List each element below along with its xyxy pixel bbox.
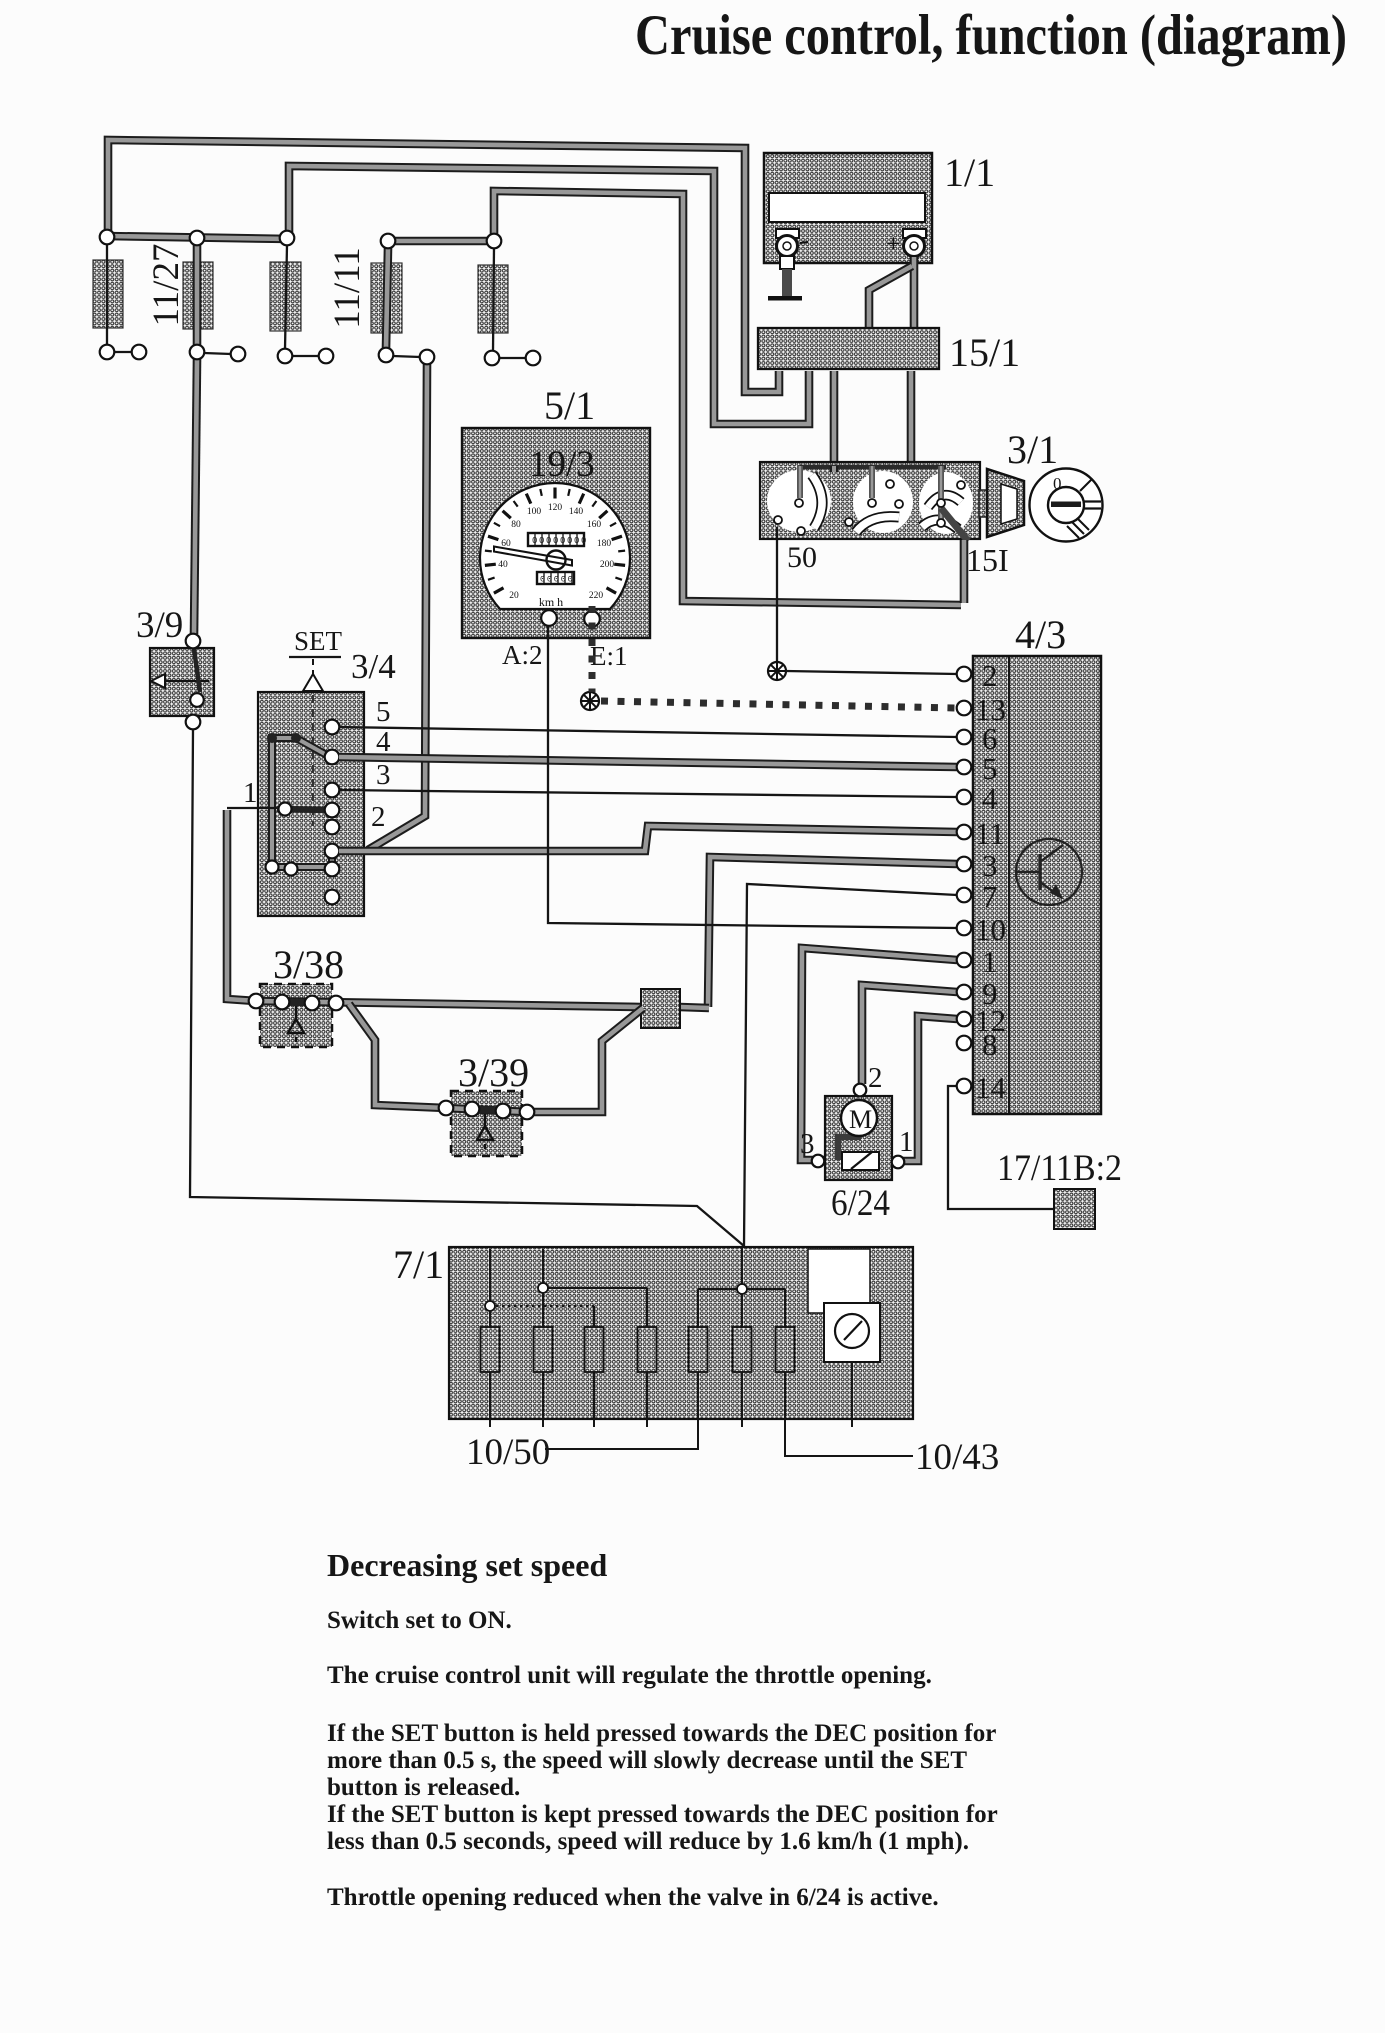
svg-text:more than 0.5 s, the speed wil: more than 0.5 s, the speed will slowly d… [327,1747,967,1774]
svg-text:button is released.: button is released. [327,1774,520,1801]
svg-text:140: 140 [569,507,584,517]
terminal link F4 [393,356,420,357]
node A:2 [541,610,557,626]
odometer lower [537,572,575,585]
svg-text:40: 40 [498,560,508,570]
svg-text:A:2: A:2 [502,640,543,670]
wire 4/3 pin3 to junction box [708,857,957,1007]
svg-text:5/1: 5/1 [544,383,595,428]
wire 3/4 pin2 to 4/3 pin11 [339,826,957,851]
svg-text:2: 2 [371,801,386,833]
cruise control unit 4/3 body [973,656,1101,1114]
wire 3/4 pin1 down to 3/38 row [227,810,256,1001]
3/4 internal bottom bar [272,852,332,867]
svg-text:00000: 00000 [540,575,575,585]
7/1 junction node b [737,1284,747,1294]
wire fuse top row [105,236,290,239]
7/1 element 6 [733,1327,752,1372]
7/1 junction node a [538,1283,548,1293]
svg-text:Throttle opening reduced when: Throttle opening reduced when the valve … [327,1884,939,1911]
wire through fuse F4 (11/11) [386,248,388,348]
6/24 internal lead [838,1137,861,1160]
svg-text:120: 120 [548,503,563,513]
3/4 internal contact path [272,738,332,867]
wire 4/3 pin7 across and down to 7/1 [744,884,957,1246]
node 6/24 pin3 [812,1155,825,1168]
node 3/4 pin c1 [325,803,340,818]
speedometer tick marks [485,488,625,594]
svg-text:10/50: 10/50 [466,1432,550,1473]
7/1 element 4 [638,1327,657,1372]
switch chamber middle [853,471,913,533]
svg-text:8: 8 [982,1027,998,1062]
node 3/38 c [305,996,320,1011]
speedometer needle [494,547,572,566]
node F3 pair [319,349,334,364]
speedometer 5/1 body [462,428,650,638]
connector 3/39 body [451,1091,522,1156]
node 4/3 pin 11 [957,825,972,840]
switch node g [797,527,805,535]
fuse F2 11/27 [183,262,213,329]
switch bezel tab [979,490,988,517]
3/4 dashed axis [312,695,314,826]
wire 4/3 pin12 to 6/24 pin1 [881,1016,957,1161]
switch stub contact 1 [797,466,803,498]
node 3/4 pin c4 [325,890,340,905]
node 4/3 pin 10 [957,921,972,936]
node F5 pair [526,351,541,366]
node 3/9 mid [190,693,204,707]
key cylinder face 3/1 [1030,469,1103,542]
svg-text:The cruise control unit will r: The cruise control unit will regulate th… [327,1662,932,1689]
7/1 white notch [808,1249,870,1313]
switch contact arc middle [856,517,899,532]
7/1 junction node c [485,1301,495,1311]
terminal link F1 [114,351,132,353]
svg-text:160: 160 [587,520,602,530]
wire E:1 dashed down [589,606,596,692]
3/4 junction dot [267,733,277,743]
switch chamber left [767,470,831,532]
svg-text:14: 14 [975,1070,1007,1105]
6/24 valve symbol [842,1152,879,1170]
node 4/3 pin 14 [957,1079,972,1094]
switch node i [937,519,945,527]
svg-text:Cruise control, function (diag: Cruise control, function (diagram) [635,4,1347,67]
7/1 dotted link [490,1305,594,1307]
node 3/9 bottom [186,715,201,730]
svg-text:3/9: 3/9 [136,605,183,646]
switch 3/9 lever [194,649,200,692]
node F1 bottom [100,345,115,360]
svg-text:SET: SET [294,626,343,656]
node 3/38 a [249,994,264,1009]
svg-text:E:1: E:1 [590,641,628,671]
node 3/39 c [496,1104,511,1119]
wire fuse F2 down to switch 3/9 [194,359,197,634]
node 4/3 pin 13 [957,701,972,716]
fuse F5 [478,265,508,333]
node 3/38 b [275,995,290,1010]
node 4/3 pin 3 [957,857,972,872]
svg-text:220: 220 [589,591,604,601]
node F4 bottom [379,348,394,363]
battery 1/1 body [764,153,932,263]
svg-text:3: 3 [800,1128,815,1160]
wire 3/39 mated segment [470,1109,505,1111]
node F5 top [487,234,502,249]
wire through fuse F2 (11/27) [193,245,202,345]
connector 3/39 arrow [477,1114,493,1149]
odometer upper [528,533,588,546]
node 3/9 top [186,634,201,649]
terminal link F2 [204,353,231,354]
node 3/4 bar1 [279,803,292,816]
node F5 bottom [485,351,500,366]
wire feed row 2 [289,166,809,424]
fuse F3 [270,262,301,331]
7/1 clock unit [824,1303,880,1362]
wire 15/1 to ignition switch left [830,371,839,462]
wire 3/4 pin1 link [227,807,277,809]
node F4 top [381,234,396,249]
junction box on pin3 wire [641,989,680,1028]
battery negative terminal [776,229,808,269]
switch contact arc left [812,475,822,528]
svg-text:7: 7 [982,879,998,914]
svg-text:10/43: 10/43 [915,1437,999,1478]
SET dashed stem [312,659,314,676]
svg-text:11/27: 11/27 [146,244,187,327]
4/3 pin strip divider [1008,657,1010,1113]
svg-text:km h: km h [539,595,563,609]
fuse F1 [93,260,123,328]
battery label band [769,193,925,222]
wire 3/4 pin4 to 4/3 pin5 [339,757,957,767]
switch chamber right [919,472,973,534]
svg-text:Decreasing set speed: Decreasing set speed [327,1547,607,1583]
svg-text:100: 100 [527,507,542,517]
switch 3/9 arrow [151,674,209,688]
switch contact arc right low [922,520,958,529]
wire 4/3 pin1 to 6/24 pin3 [801,948,957,1160]
switch stub contact 2 [869,466,875,498]
svg-text:M: M [849,1105,872,1134]
node 4/3 pin 2 [957,667,972,682]
ground symbol [768,296,802,301]
node F2 bottom [190,345,205,360]
svg-text:00000000: 00000000 [532,536,588,546]
terminal link F3 [292,355,319,357]
switch rotor lever [941,508,968,541]
node 3/4 pin c3 [325,862,340,877]
node F3 top [280,231,295,246]
switch top bus bar [800,465,946,470]
svg-text:3/4: 3/4 [351,647,396,686]
battery negative lead [782,269,792,296]
svg-text:If the SET button is held pres: If the SET button is held pressed toward… [327,1720,996,1747]
wire 3/39 row [446,1108,527,1112]
switch node 50 [774,516,782,524]
switch stub contact 3 [938,466,944,520]
switch node a [795,499,803,507]
svg-text:200: 200 [600,560,615,570]
SET underline [289,656,341,658]
node E1 junction [581,692,599,710]
wire battery + diagonal to 15/1 [869,266,912,328]
svg-text:+: + [886,229,901,258]
wire fuse 11/11 top link [388,237,494,246]
stalk switch 3/4 body [258,692,364,916]
node 4/3 pin 12 [957,1012,972,1027]
svg-text:2: 2 [868,1062,883,1094]
wire 4/3 pin9 to 6/24 pin2 [862,985,957,1084]
svg-text:10: 10 [975,912,1006,947]
wire battery + to 15/1 right [910,257,919,328]
SET arrow [303,674,323,691]
svg-text:1: 1 [982,944,998,979]
svg-text:4/3: 4/3 [1015,612,1066,657]
wire fuse F4 down to 3/4 pin 2 wire [368,364,427,850]
svg-text:0: 0 [1053,474,1062,493]
node F4 pair [420,350,435,365]
speedometer hub [547,551,566,570]
7/1 element 2 [534,1327,553,1372]
node 4/3 pin 1 [957,953,972,968]
node F3 bottom [278,349,293,364]
wire 3/38 mated segment [280,1002,314,1003]
node ignition 50 junction [768,662,786,680]
wire through fuse F1 [106,244,108,345]
svg-text:1: 1 [899,1126,914,1158]
wire through fuse F5 [493,248,494,351]
speedometer dial face [480,483,630,609]
node 4/3 pin 6 [957,730,972,745]
svg-text:4: 4 [982,781,998,816]
svg-text:Switch set to ON.: Switch set to ON. [327,1607,512,1634]
transistor symbol in 4/3 [1016,839,1082,905]
valve 6/24 body [825,1096,892,1180]
node 4/3 pin 5 [957,760,972,775]
svg-text:15I: 15I [966,542,1009,578]
6/24 motor M [841,1100,877,1136]
node 4/3 pin 7 [957,888,972,903]
svg-text:11/11: 11/11 [327,247,368,329]
svg-text:less than 0.5 seconds, speed w: less than 0.5 seconds, speed will reduce… [327,1828,969,1855]
ignition switch 3/1 body [760,462,980,539]
node 3/4 pin2 [325,844,340,859]
switch node e [895,500,903,508]
fuse F4 11/11 [371,263,402,333]
node 3/4 pin5 [325,720,340,735]
svg-text:4: 4 [376,726,391,758]
svg-text:180: 180 [597,539,612,549]
svg-text:7/1: 7/1 [393,1242,444,1287]
node 3/39 b [465,1102,480,1117]
wire junction to 4/3 riser joint [680,1007,709,1008]
terminal link F5 [500,357,526,359]
fusebox 15/1 [758,328,939,369]
relay box 7/1 body [449,1247,913,1419]
key bezel trapezoid [987,469,1024,537]
battery positive terminal [886,229,926,258]
switch node h [957,481,965,489]
3/4 junction dot2 [291,733,301,743]
connector 3/38 arrow [288,1006,304,1042]
wire 4/3 pin10 to A:2 [548,626,957,928]
switch node c [937,499,945,507]
svg-text:If the SET button is kept pres: If the SET button is kept pressed toward… [327,1801,998,1828]
wire ignition 15I down [960,540,969,603]
7/1 element 7 [776,1327,795,1372]
wire battery feed row 1 (top) [108,140,779,392]
switch node b [868,499,876,507]
switch node f [845,518,853,526]
wire node50 to 4/3 pin2 [786,671,957,674]
node 4/3 pin 9 [957,985,972,1000]
wire 15/1 to ignition switch right [907,371,916,462]
wire 3/4 pin3 to 4/3 pin4 [339,790,957,797]
node 6/24 pin2 [854,1084,867,1097]
switch node d [886,480,894,488]
switch 3/9 body [150,648,214,716]
svg-text:5: 5 [376,696,391,728]
node 3/4 pin3 [325,783,340,798]
svg-text:19/3: 19/3 [529,444,595,485]
node F2 pair [231,347,246,362]
svg-text:3: 3 [982,848,998,883]
7/1 internal wiring [490,1247,913,1456]
wire terminal 50 down to node [776,527,778,662]
node 3/4 bl [266,861,279,874]
wire 4/3 pin14 to 17/11B:2 [948,1086,1054,1209]
node 3/39 a [439,1101,454,1116]
wire 3/9 down and across to 7/1 [190,729,744,1246]
node 4/3 pin 8 [957,1036,972,1051]
wire 3/38 row [256,1001,641,1007]
3/4 internal dark bar [277,809,330,810]
node E:1 [584,611,600,627]
node F1 top [100,230,115,245]
node F2 top [190,231,205,246]
connector 3/38 body [260,984,332,1047]
7/1 element 1 [481,1327,500,1372]
switch contact petals right [928,495,961,507]
svg-text:2: 2 [982,658,998,693]
wire feed row 3 to ignition switch 15I [494,191,961,605]
wire 3/4 pin5 to 4/3 pin6 [339,727,957,737]
svg-text:15/1: 15/1 [949,330,1020,375]
svg-text:3: 3 [376,759,391,791]
node 3/4 pin4 [325,750,340,765]
svg-text:1/1: 1/1 [944,150,995,195]
svg-text:3/39: 3/39 [458,1050,529,1095]
svg-text:3/38: 3/38 [273,942,344,987]
node 3/4 pin c2 [325,820,340,835]
svg-text:80: 80 [511,520,521,530]
wire 3/38 branch down to 3/39 [349,1004,446,1108]
connector 17/11B:2 [1054,1189,1095,1229]
svg-text:17/11B:2: 17/11B:2 [997,1148,1122,1189]
node 3/39 d [520,1105,535,1120]
svg-text:11: 11 [975,816,1005,851]
svg-text:1: 1 [243,777,258,809]
svg-text:3/1: 3/1 [1007,427,1058,472]
7/1 element 5 [689,1327,708,1372]
switch internal drop left [830,466,839,472]
node 6/24 pin1 [892,1156,905,1169]
node F1 pair [132,345,147,360]
node 3/38 d [329,996,344,1011]
node 3/4 bm [285,863,298,876]
wire 3/39 up to junction box [527,1008,643,1112]
speedometer scale numbers [498,503,614,609]
svg-text:6/24: 6/24 [831,1183,890,1224]
svg-text:50: 50 [787,541,817,574]
svg-text:20: 20 [509,591,519,601]
7/1 element 3 [585,1327,604,1372]
wire dashed node to 4/3 pin13 [601,701,957,708]
wire through fuse F3 [285,245,287,349]
node 4/3 pin 4 [957,790,972,805]
